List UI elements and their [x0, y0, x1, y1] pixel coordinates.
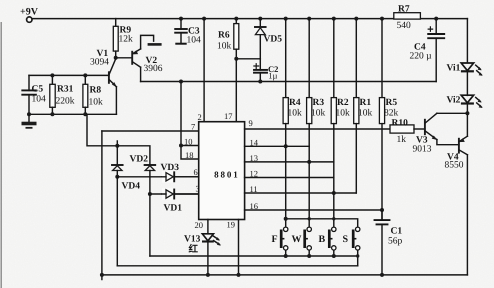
svg-text:104: 104: [187, 36, 202, 46]
resistor R2: [331, 17, 350, 124]
wire pin 7 net: corner down to bottom rail: [101, 131, 103, 275]
node rail/C4/R7 junction: [434, 17, 438, 21]
wire pin 9 row: [245, 128, 390, 130]
svg-text:82k: 82k: [384, 109, 399, 119]
transistor V1: [90, 49, 117, 87]
wire R4 column to button F: [285, 124, 287, 227]
wire bias bottom: [29, 113, 116, 115]
svg-text:R3: R3: [313, 98, 325, 108]
wire mid bus (F W B bottoms): [150, 255, 358, 257]
wire IC pin 20 drop: [207, 220, 209, 234]
svg-text:10k: 10k: [358, 109, 373, 119]
svg-text:10k: 10k: [336, 109, 351, 119]
node C5 bottom: [27, 112, 31, 116]
wire V11 to V12: [466, 71, 468, 96]
wire pin 7 row: [102, 130, 199, 132]
pushbutton F: [272, 227, 288, 250]
node R6 bottom junction: [234, 57, 238, 61]
svg-text:S: S: [343, 234, 349, 245]
scan edge artifact: [0, 22, 2, 288]
svg-text:V13: V13: [184, 235, 201, 245]
wire LED junction to V4 emitter: [466, 113, 468, 136]
svg-text:20: 20: [195, 220, 204, 230]
wire V12 to junction: [466, 104, 468, 114]
svg-text:10k: 10k: [288, 109, 303, 119]
svg-text:6: 6: [194, 167, 198, 177]
wire V4 collector to bottom rail: [466, 155, 468, 275]
svg-text:3: 3: [196, 184, 200, 194]
wire button top bus to S: [286, 219, 358, 227]
wire V1 emitter down: [115, 87, 117, 115]
svg-text:+9V: +9V: [20, 7, 39, 18]
pushbutton B: [319, 227, 336, 250]
wire button bottoms to mid bus: [285, 250, 287, 256]
svg-text:56p: 56p: [388, 237, 403, 247]
wire pin 12 row: [245, 177, 334, 179]
node +9V terminal: [20, 7, 39, 23]
svg-text:8550: 8550: [445, 161, 464, 171]
svg-text:10k: 10k: [311, 109, 326, 119]
diode VD4 top stub: [116, 141, 118, 146]
resistor R8: [83, 73, 103, 116]
wire lower bus (S bottom to diode net): [117, 265, 357, 267]
wire pin 10 row: [181, 145, 199, 147]
resistor R10: [390, 119, 425, 146]
svg-text:VD5: VD5: [264, 35, 283, 45]
svg-text:220k: 220k: [56, 97, 75, 107]
resistor R31: [50, 73, 75, 116]
svg-text:R5: R5: [386, 98, 398, 108]
capacitor C2: [253, 59, 278, 84]
LED V11: [447, 63, 483, 76]
svg-text:17: 17: [224, 111, 233, 121]
wire bottom rail: [102, 274, 468, 276]
svg-text:VD4: VD4: [122, 182, 141, 192]
pushbutton W: [292, 227, 312, 250]
wire V2 collector down: [140, 67, 142, 81]
svg-text:C1: C1: [391, 227, 403, 237]
svg-text:R31: R31: [57, 85, 74, 95]
resistor R5: [379, 17, 398, 124]
svg-text:B: B: [319, 234, 326, 245]
transistor V2: [116, 49, 163, 74]
wire rail right drop to LED chain: [466, 19, 468, 63]
wire V2 emitter to contact plate: [141, 35, 154, 49]
svg-text:R4: R4: [289, 98, 301, 108]
svg-text:3906: 3906: [144, 64, 163, 74]
svg-text:R10: R10: [392, 119, 409, 129]
wire pin 14 row: [245, 145, 310, 147]
svg-text:19: 19: [227, 220, 236, 230]
svg-text:9013: 9013: [413, 145, 432, 155]
capacitor C1: [375, 210, 403, 275]
wire IC pin 17 drop: [235, 59, 237, 122]
svg-text:Vi2: Vi2: [447, 96, 461, 106]
wire R8 bottom down to diode net: [87, 114, 117, 146]
svg-text:7: 7: [191, 122, 195, 132]
svg-text:104: 104: [32, 95, 47, 105]
svg-text:8801: 8801: [214, 170, 240, 180]
svg-text:1k: 1k: [397, 135, 407, 145]
wire R6 junction to VD5/C2: [236, 58, 260, 60]
LED V13: [184, 234, 221, 275]
wire pin 3 row: [150, 193, 199, 195]
resistor R4: [283, 17, 302, 124]
svg-text:3094: 3094: [90, 58, 109, 68]
pushbutton S: [343, 227, 360, 250]
wire V3 emitter to V4 base: [437, 140, 459, 145]
wire VD4 top to VD2 top: [117, 146, 150, 165]
diode VD4: [112, 146, 140, 192]
node R9/V1/V2 junction: [114, 56, 118, 60]
wire VD2/VD1 junction down to button bus: [149, 194, 151, 256]
svg-text:C5: C5: [32, 84, 44, 94]
svg-text:12k: 12k: [119, 35, 134, 45]
svg-text:R8: R8: [90, 86, 102, 96]
capacitor C4: [410, 19, 445, 62]
resistor R7: [394, 5, 421, 31]
wire C3 column to pin 10 / pin 18: [181, 82, 199, 160]
IC U1 8801: [199, 122, 245, 220]
svg-text:10k: 10k: [89, 98, 104, 108]
svg-text:2: 2: [198, 112, 202, 122]
wire R3 column to button W: [308, 124, 310, 227]
svg-text:VD1: VD1: [164, 204, 183, 214]
svg-text:VD3: VD3: [161, 163, 180, 173]
capacitor C5: [22, 75, 46, 114]
wire bias top (C5/R31/R8 to V1 base): [29, 74, 109, 76]
wire pin 11 row: [245, 192, 357, 194]
svg-text:R2: R2: [337, 98, 349, 108]
ground: [22, 114, 37, 128]
diode VD3: [161, 163, 199, 183]
svg-text:VD2: VD2: [130, 155, 149, 165]
svg-text:R7: R7: [398, 5, 410, 15]
diode VD1: [162, 188, 199, 213]
svg-text:W: W: [292, 234, 302, 245]
diode VD2: [130, 155, 156, 195]
contact plate: [148, 43, 162, 46]
wire R5 column to C1: [381, 124, 383, 220]
wire IC pin 2 from rail: [202, 17, 206, 21]
resistor R1: [354, 17, 373, 124]
svg-text:10k: 10k: [217, 42, 232, 52]
transistor V4: [445, 136, 468, 170]
svg-text:1µ: 1µ: [268, 71, 277, 81]
node VD4 anode / pin6 row: [115, 175, 119, 179]
svg-text:红: 红: [189, 243, 199, 255]
wire R2 column to button B: [333, 124, 335, 227]
node VD2 bottom / pin3 row: [148, 192, 152, 196]
wire collector bus: [141, 81, 437, 83]
resistor R9: [113, 19, 133, 58]
resistor R3: [307, 17, 326, 124]
svg-text:R1: R1: [360, 98, 372, 108]
LED V12: [447, 95, 483, 108]
diode VD5: [255, 17, 282, 59]
wire C4 bottom to collector bus: [435, 38, 437, 81]
transistor V3: [413, 113, 438, 154]
wire V3 collector to LED junction: [437, 112, 468, 114]
svg-text:Vi1: Vi1: [447, 64, 461, 74]
resistor R6: [217, 17, 239, 59]
wire pin 13 row: [245, 161, 334, 163]
wire VD4 junction down to lower bus: [116, 177, 118, 266]
svg-text:9: 9: [249, 118, 253, 128]
wire R1 bottom to pin 11 row: [355, 124, 357, 193]
svg-text:R6: R6: [218, 31, 230, 41]
wire top +9V rail: [32, 18, 467, 20]
svg-text:220 µ: 220 µ: [410, 52, 433, 62]
wire pin 16 row: [245, 209, 382, 211]
svg-text:540: 540: [397, 21, 412, 31]
wire IC pin 19 drop: [238, 220, 240, 275]
wire pin 6 row: [117, 176, 198, 178]
capacitor C3: [175, 17, 201, 46]
node bus to IC pins 10/18: [179, 80, 183, 84]
svg-text:F: F: [272, 234, 278, 245]
